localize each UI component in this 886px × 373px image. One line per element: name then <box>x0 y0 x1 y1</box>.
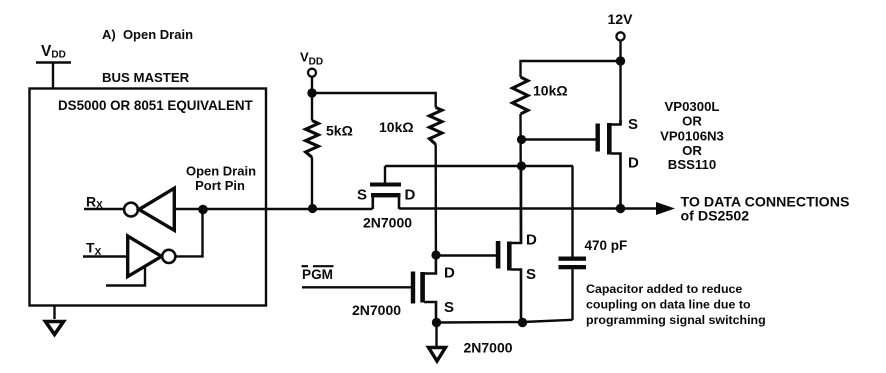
svg-text:OR: OR <box>682 143 702 158</box>
wire 12V node down to P-MOSFET source <box>619 61 621 125</box>
node 5k to data line <box>308 204 317 213</box>
svg-text:D: D <box>526 232 537 249</box>
ground (programming switch) <box>429 348 446 362</box>
node gate line junction <box>517 161 526 170</box>
wire ground bus <box>437 320 573 323</box>
svg-text:S: S <box>526 266 536 283</box>
wire 12V node to 10k resistor (right) <box>521 61 621 77</box>
wire Rx to inverter output bubble <box>84 208 124 210</box>
transistor Q3 2N7000 (clamp) <box>496 167 521 319</box>
label TO DATA CONNECTIONS of DS2502 <box>681 195 850 225</box>
ground (bus master) <box>46 322 64 335</box>
resistor 5k <box>306 93 319 205</box>
transistor U1 P-channel VP0300L <box>596 120 621 205</box>
wire Tx to inverter input <box>83 255 127 257</box>
svg-text:5kΩ: 5kΩ <box>326 123 353 139</box>
arrow to DS2502 <box>656 202 675 215</box>
wire Rx inverter input to port pin node <box>175 208 203 210</box>
label capacitor note <box>586 282 766 327</box>
transistor Q2 2N7000 (PGM driver) <box>411 259 436 319</box>
node Q2 source / ground bus <box>432 318 441 327</box>
wire 12V circle to node <box>619 41 621 62</box>
svg-text:10kΩ: 10kΩ <box>533 83 568 99</box>
node Q3 source on ground bus <box>518 318 527 327</box>
wire ground lead below box <box>53 305 55 319</box>
wire VDD circle to node <box>311 77 313 93</box>
resistor 10k (middle) <box>429 108 442 256</box>
inverter Tx (points right) <box>128 236 162 277</box>
wire data line right of Q1 to arrow <box>399 207 659 209</box>
svg-text:12V: 12V <box>608 11 634 27</box>
svg-text:coupling on data line due to: coupling on data line due to <box>586 298 751 312</box>
node Q2 drain / 10k / Q3 gate <box>431 250 440 259</box>
svg-text:programming signal switching: programming signal switching <box>586 313 766 327</box>
resistor 10k (right) <box>513 77 528 243</box>
node VDD distribution <box>307 88 316 97</box>
power rail VDD (bus master) <box>36 43 71 63</box>
svg-text:D: D <box>628 155 639 172</box>
svg-text:2N7000: 2N7000 <box>352 302 401 318</box>
svg-text:Capacitor added to reduce: Capacitor added to reduce <box>586 282 742 296</box>
svg-text:2N7000: 2N7000 <box>464 340 513 356</box>
wire Tx inverter output up to port pin node <box>175 212 202 256</box>
svg-text:Open Drain: Open Drain <box>186 164 256 179</box>
wire VDD node to 10k resistor <box>312 93 436 108</box>
power 12V <box>608 11 634 41</box>
svg-text:Port Pin: Port Pin <box>195 178 245 193</box>
power VDD (pull-up supply) <box>300 50 323 77</box>
transistor Q1 2N7000 pass gate <box>370 166 401 209</box>
label Open Drain Port Pin <box>186 164 256 194</box>
svg-text:PGM: PGM <box>302 267 333 282</box>
label VP0300L OR VP0106N3 OR BSS110 <box>660 99 724 172</box>
node 10k bottom junction <box>517 135 526 144</box>
svg-text:A) Open Drain: A) Open Drain <box>102 27 193 42</box>
node 12V distribution <box>616 56 625 65</box>
svg-text:VP0300L: VP0300L <box>665 99 720 114</box>
svg-text:S: S <box>357 187 367 204</box>
svg-text:470 pF: 470 pF <box>585 238 628 253</box>
wire 10k junction to P-MOSFET gate <box>522 138 598 140</box>
label PGM (with overline) <box>302 266 334 282</box>
svg-text:S: S <box>444 299 454 316</box>
svg-text:DS5000 OR 8051 EQUIVALENT: DS5000 OR 8051 EQUIVALENT <box>58 98 254 113</box>
wire PGM to Q2 gate <box>302 286 412 288</box>
svg-text:BSS110: BSS110 <box>668 157 716 172</box>
wire data line <box>203 208 373 210</box>
wire node to Q3 gate <box>436 254 497 256</box>
svg-text:2N7000: 2N7000 <box>363 215 412 231</box>
wire gate node line (Q1 gate to cap) <box>385 165 573 167</box>
svg-text:S: S <box>628 116 638 133</box>
svg-text:OR: OR <box>682 113 702 128</box>
inverter Rx bubble <box>124 203 138 217</box>
svg-text:of DS2502: of DS2502 <box>681 209 750 225</box>
wire Tx inverter lower stub <box>106 266 145 286</box>
inverter Tx bubble <box>162 250 175 263</box>
svg-text:D: D <box>444 265 455 282</box>
svg-text:10kΩ: 10kΩ <box>379 119 414 135</box>
capacitor C1 470pF <box>559 166 587 320</box>
wire VDD rail to box top <box>52 63 54 90</box>
wire ground lead (Q2) <box>435 323 437 347</box>
inverter Rx (points left) <box>139 188 174 230</box>
svg-text:VP0106N3: VP0106N3 <box>660 129 724 144</box>
svg-text:D: D <box>405 187 416 204</box>
bus master box <box>30 89 267 306</box>
node P-MOSFET drain on data line <box>616 204 625 213</box>
svg-text:BUS MASTER: BUS MASTER <box>102 70 190 85</box>
node open drain port pin <box>198 205 208 215</box>
